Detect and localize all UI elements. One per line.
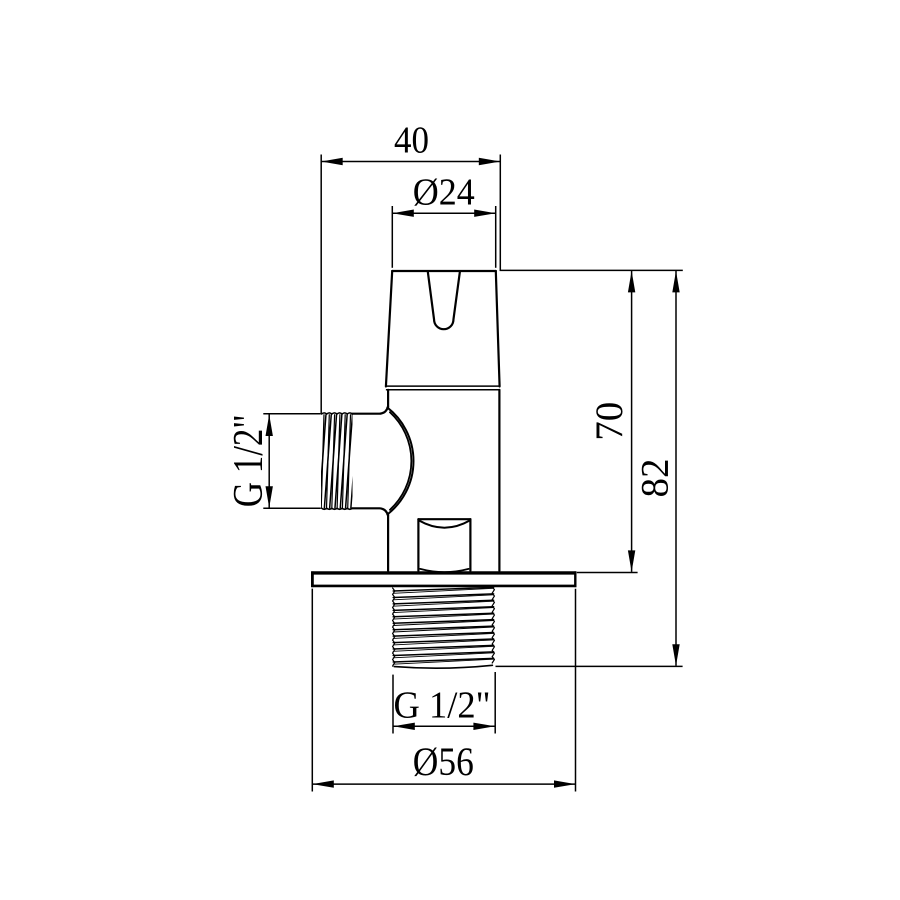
svg-text:G 1/2": G 1/2" — [394, 684, 491, 726]
svg-text:Ø56: Ø56 — [413, 739, 474, 784]
svg-text:70: 70 — [588, 402, 631, 441]
svg-text:G 1/2": G 1/2" — [226, 414, 272, 507]
svg-text:Ø24: Ø24 — [413, 172, 475, 214]
svg-text:82: 82 — [633, 459, 676, 498]
svg-text:40: 40 — [394, 119, 429, 161]
